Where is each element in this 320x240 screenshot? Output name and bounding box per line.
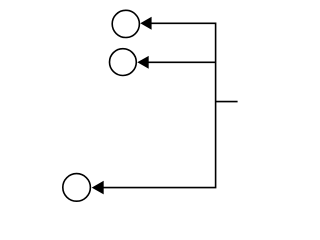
- node B (middle circle): [110, 49, 137, 76]
- wire (right stub tick): [216, 101, 238, 103]
- node C (bottom circle): [63, 174, 91, 202]
- arrowhead into node A: [140, 17, 151, 30]
- node A (top circle): [112, 10, 139, 37]
- wire (top arrow line, right vertical bus, bottom arrow line): [103, 23, 216, 187]
- arrowhead into node B: [137, 56, 148, 69]
- wire (middle arrow line): [147, 61, 216, 63]
- arrowhead into node C: [92, 181, 104, 195]
